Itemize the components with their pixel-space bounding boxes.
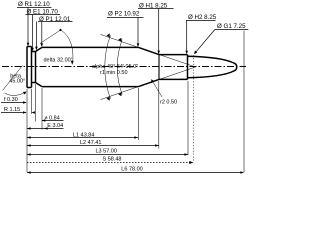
svg-text:r2 0.50: r2 0.50 bbox=[160, 100, 177, 106]
centerline (case axis, dash-dot) bbox=[2, 66, 246, 68]
svg-text:L6 78.00: L6 78.00 bbox=[121, 166, 142, 172]
svg-text:L2 47.41: L2 47.41 bbox=[80, 140, 101, 146]
extension line groove front bbox=[35, 84, 37, 122]
delta taper leader line with dot bbox=[40, 30, 61, 44]
alpha angle arc inner bbox=[117, 40, 122, 95]
r2 radius leader with arrow bbox=[153, 82, 162, 97]
extension line rim front bbox=[31, 89, 33, 114]
case outline upper half (rim, extractor groove, body, shoulder, neck, mouth) bbox=[27, 47, 188, 88]
svg-text:Ø R1 12.10: Ø R1 12.10 bbox=[18, 1, 50, 8]
svg-text:S 58.48: S 58.48 bbox=[103, 156, 122, 162]
bullet ogive with round tip bbox=[188, 56, 237, 78]
extension line case mouth bbox=[187, 81, 189, 155]
svg-text:delta 32.00': delta 32.00' bbox=[44, 57, 72, 63]
extension line head face bbox=[26, 89, 28, 172]
neck start vertical line bbox=[158, 55, 160, 80]
beta angle arc with arrow bbox=[5, 92, 26, 95]
svg-text:L3 57.00: L3 57.00 bbox=[96, 149, 117, 155]
beta chamfer construction line bbox=[3, 66, 23, 91]
svg-text:Ø P2 10.92: Ø P2 10.92 bbox=[108, 10, 140, 17]
alpha shoulder cone construction lines bbox=[101, 34, 196, 99]
extension line body start bbox=[41, 88, 43, 130]
svg-text:45.00°: 45.00° bbox=[9, 79, 25, 85]
alpha angle arc outer bbox=[105, 35, 111, 99]
S point dotted extension vertical bbox=[193, 55, 195, 163]
case outline lower half (mirror) bbox=[27, 79, 188, 87]
delta angle arc with arrow to axis bbox=[61, 30, 73, 63]
leader to groove front wall bbox=[35, 22, 37, 48]
extension line neck start bbox=[158, 81, 160, 149]
svg-text:r1 min 0.50: r1 min 0.50 bbox=[100, 70, 128, 76]
extension line shoulder start bbox=[137, 88, 139, 140]
extension line bullet tip bbox=[243, 31, 245, 173]
